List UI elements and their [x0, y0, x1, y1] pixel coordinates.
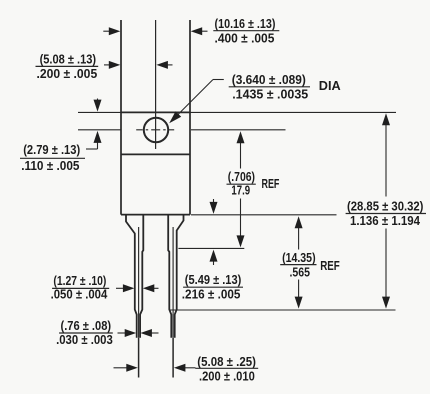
label 3.640 DIA [229, 72, 342, 102]
svg-text:(10.16 ± .13): (10.16 ± .13) [215, 16, 276, 31]
body top edge [121, 111, 190, 113]
label 1.27 [51, 273, 110, 302]
dimension 2.79 arrows with leader [86, 99, 102, 150]
label 2.79 [20, 142, 85, 173]
mounting hole [144, 118, 168, 142]
dimension .706 vertical line [237, 131, 245, 247]
label .76 [56, 318, 113, 347]
label 28.85-30.32 [346, 198, 426, 228]
svg-text:(5.49 ± .13): (5.49 ± .13) [185, 272, 242, 287]
dimension 5.49 arrows [210, 199, 218, 265]
label 5.08 bottom [195, 354, 258, 384]
svg-text:1.136 ± 1.194: 1.136 ± 1.194 [350, 213, 421, 228]
svg-text:.565: .565 [290, 265, 311, 280]
label 14.35 REF [280, 250, 340, 280]
svg-text:17.9: 17.9 [231, 183, 250, 198]
hole horizontal crosshair (dashed centerline) [136, 129, 174, 131]
svg-text:.200 ± .005: .200 ± .005 [37, 66, 98, 81]
svg-text:(5.08 ± .13): (5.08 ± .13) [40, 52, 97, 67]
hole-center extension line left [78, 129, 121, 131]
left lead centerline [138, 227, 140, 338]
package centerline [155, 20, 157, 149]
label .706 REF [227, 169, 280, 197]
hole diameter leader [169, 80, 224, 124]
svg-text:(28.85 ± 30.32): (28.85 ± 30.32) [347, 198, 423, 213]
svg-text:.050 ± .004: .050 ± .004 [51, 287, 108, 302]
hole-center extension line right [191, 129, 286, 131]
svg-text:(3.640 ± .089): (3.640 ± .089) [232, 72, 306, 87]
left lead outline [126, 215, 137, 338]
dimension .76 arrows [118, 329, 159, 337]
dimension 28.85-30.32 vertical line [382, 113, 390, 308]
svg-text:(.76 ± .08): (.76 ± .08) [61, 318, 112, 333]
package body left edge with upper extension [120, 20, 122, 215]
svg-text:REF: REF [320, 258, 340, 273]
svg-text:.1435 ± .0035: .1435 ± .0035 [232, 87, 308, 102]
body-bottom extension line right [191, 214, 337, 216]
dimension 5.08 top arrows [104, 61, 173, 69]
svg-text:.110 ± .005: .110 ± .005 [21, 158, 79, 173]
right lead centerline [172, 227, 174, 338]
body-top extension line right [190, 111, 396, 113]
svg-text:.200 ± .010: .200 ± .010 [199, 369, 255, 384]
dimension 14.35 vertical line [295, 216, 303, 308]
label 5.08 top [36, 52, 99, 81]
svg-text:(5.08 ± .25): (5.08 ± .25) [197, 354, 256, 369]
svg-text:.216 ± .005: .216 ± .005 [182, 286, 241, 301]
label 5.49 [182, 272, 243, 301]
left lead center extension to bottom [138, 338, 140, 378]
lead-tip extension line [169, 309, 395, 311]
svg-text:(14.35): (14.35) [282, 250, 316, 265]
body-top extension line left [78, 111, 121, 113]
dimension 5.08 bottom arrows [114, 364, 196, 372]
package body right edge with upper extension [189, 20, 191, 215]
body bottom edge [121, 214, 190, 216]
svg-text:.400 ± .005: .400 ± .005 [215, 31, 275, 46]
right lead outline [175, 215, 184, 338]
dimension 10.16 arrows [103, 27, 207, 35]
dimension 1.27 arrows [116, 284, 159, 292]
tab/body divider line [121, 153, 190, 155]
right lead center extension to bottom [172, 338, 174, 378]
lead-shoulder extension line [178, 247, 244, 249]
label 10.16 [213, 16, 279, 45]
svg-text:(2.79 ± .13): (2.79 ± .13) [23, 142, 80, 157]
svg-text:.030 ± .003: .030 ± .003 [56, 332, 113, 347]
svg-text:DIA: DIA [319, 78, 341, 93]
svg-text:REF: REF [262, 176, 280, 191]
